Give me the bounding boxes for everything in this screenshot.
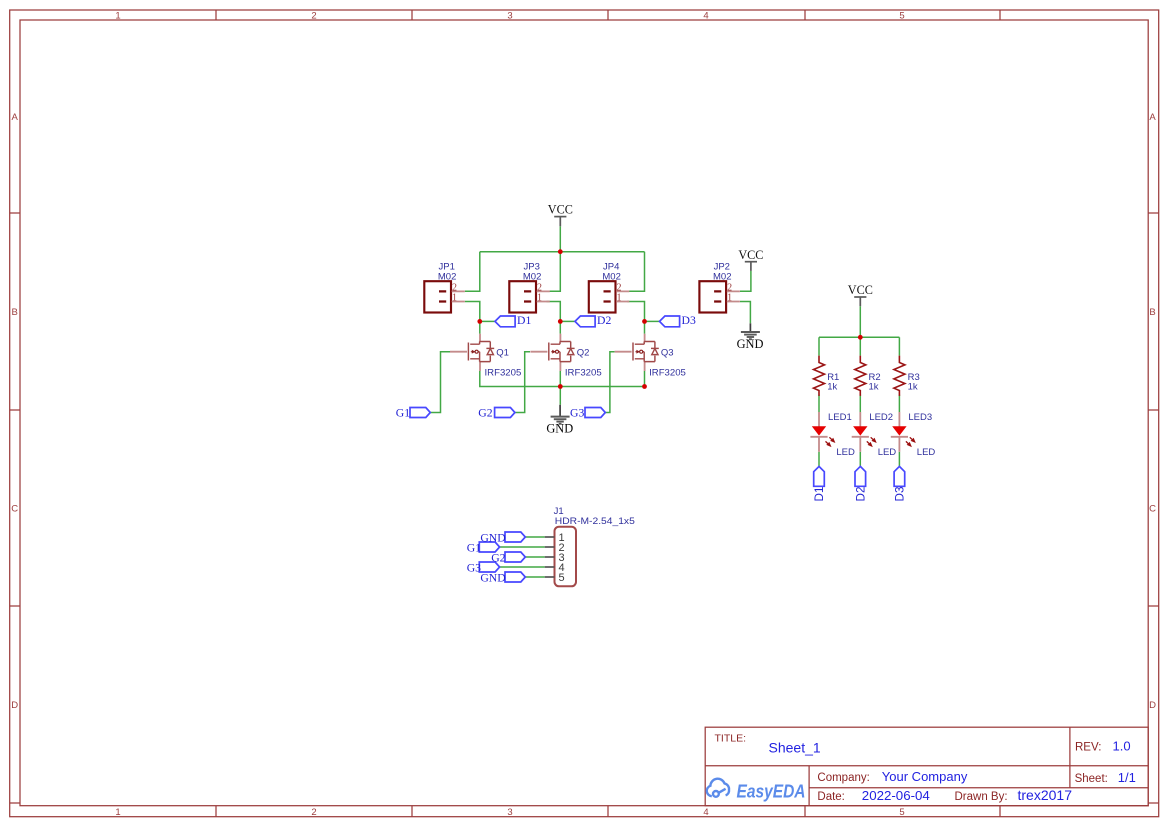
svg-text:B: B: [12, 307, 18, 318]
svg-text:VCC: VCC: [548, 203, 573, 217]
svg-text:GND: GND: [546, 422, 573, 436]
svg-text:A: A: [1149, 112, 1156, 123]
svg-text:D: D: [1149, 700, 1156, 711]
svg-text:1: 1: [115, 11, 120, 22]
svg-text:EasyEDA: EasyEDA: [737, 781, 806, 802]
svg-text:M02: M02: [713, 271, 731, 282]
svg-text:3: 3: [507, 11, 512, 22]
svg-text:M02: M02: [523, 271, 541, 282]
svg-text:D3: D3: [894, 487, 907, 502]
svg-text:D1: D1: [813, 487, 826, 502]
svg-text:G1: G1: [467, 541, 481, 554]
svg-text:1k: 1k: [869, 382, 879, 393]
svg-text:1: 1: [115, 807, 120, 818]
svg-text:TITLE:: TITLE:: [715, 733, 747, 745]
svg-text:Sheet:: Sheet:: [1075, 773, 1108, 785]
svg-text:4: 4: [703, 807, 708, 818]
svg-text:Sheet_1: Sheet_1: [769, 739, 821, 755]
svg-text:2022-06-04: 2022-06-04: [862, 788, 930, 803]
svg-text:Q2: Q2: [577, 348, 590, 359]
svg-text:Q1: Q1: [496, 348, 509, 359]
svg-text:GND: GND: [737, 337, 764, 351]
svg-text:LED3: LED3: [908, 412, 932, 423]
svg-text:LED: LED: [836, 447, 855, 458]
svg-text:Drawn By:: Drawn By:: [955, 791, 1008, 803]
svg-text:D2: D2: [597, 314, 611, 327]
svg-text:5: 5: [899, 11, 904, 22]
svg-text:5: 5: [899, 807, 904, 818]
svg-text:2: 2: [311, 807, 316, 818]
svg-text:3: 3: [507, 807, 512, 818]
svg-text:1k: 1k: [827, 382, 837, 393]
svg-text:REV:: REV:: [1075, 742, 1101, 754]
svg-text:1k: 1k: [908, 382, 918, 393]
svg-text:M02: M02: [602, 271, 620, 282]
svg-text:LED2: LED2: [869, 412, 893, 423]
svg-text:GND: GND: [480, 531, 505, 544]
svg-text:C: C: [1149, 504, 1156, 515]
svg-text:D1: D1: [517, 314, 531, 327]
svg-text:5: 5: [559, 572, 565, 584]
svg-text:VCC: VCC: [738, 248, 763, 262]
svg-text:G1: G1: [396, 407, 410, 420]
svg-text:G2: G2: [478, 407, 492, 420]
svg-text:B: B: [1149, 307, 1155, 318]
svg-text:Q3: Q3: [661, 348, 674, 359]
svg-text:A: A: [12, 112, 19, 123]
svg-text:G2: G2: [491, 551, 505, 564]
svg-text:G3: G3: [570, 407, 584, 420]
svg-text:LED: LED: [917, 447, 936, 458]
svg-text:LED1: LED1: [828, 412, 852, 423]
svg-text:IRF3205: IRF3205: [649, 367, 686, 378]
svg-text:M02: M02: [438, 271, 456, 282]
svg-text:Your Company: Your Company: [882, 769, 968, 784]
svg-text:D: D: [11, 700, 18, 711]
svg-text:4: 4: [703, 11, 708, 22]
svg-text:LED: LED: [878, 447, 897, 458]
svg-text:1/1: 1/1: [1118, 770, 1136, 785]
svg-text:Date:: Date:: [817, 791, 845, 803]
svg-text:D3: D3: [682, 314, 696, 327]
svg-text:C: C: [11, 504, 18, 515]
svg-text:IRF3205: IRF3205: [565, 367, 602, 378]
svg-text:GND: GND: [480, 571, 505, 584]
svg-text:1.0: 1.0: [1113, 739, 1131, 754]
svg-text:D2: D2: [855, 487, 868, 502]
svg-text:IRF3205: IRF3205: [485, 367, 522, 378]
svg-text:trex2017: trex2017: [1018, 787, 1073, 803]
svg-text:HDR-M-2.54_1x5: HDR-M-2.54_1x5: [555, 516, 635, 527]
svg-text:G3: G3: [467, 561, 481, 574]
svg-text:Company:: Company:: [817, 772, 869, 784]
svg-text:VCC: VCC: [848, 283, 873, 297]
svg-text:2: 2: [311, 11, 316, 22]
